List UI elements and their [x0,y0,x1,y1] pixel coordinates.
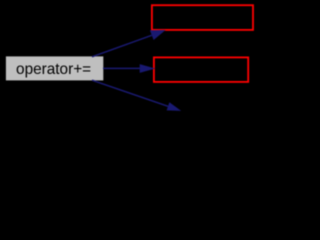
edge arrow to bottom-right (hidden node) [92,80,181,111]
node box2 (middle red box) [154,57,248,82]
edge arrow to middle box [103,64,155,73]
node operator+= (current function, grey box) [6,56,103,80]
node box1 (top red box) [152,5,253,30]
edge arrow to top box [92,30,166,57]
svg-text:operator+=: operator+= [16,61,91,78]
